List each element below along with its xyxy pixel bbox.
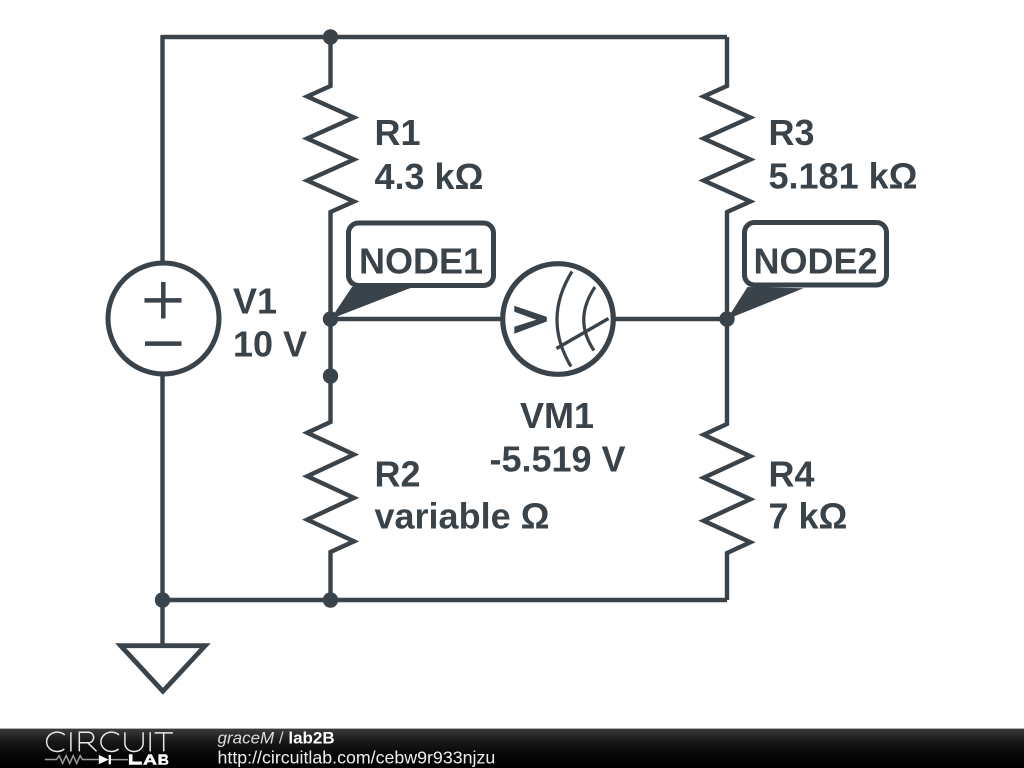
footer bar	[0, 729, 1024, 768]
label R2	[375, 454, 550, 537]
CircuitLab logo squiggle	[45, 755, 128, 764]
ground	[121, 646, 206, 692]
resistor R3	[704, 37, 751, 319]
svg-text:NODE1: NODE1	[359, 241, 483, 282]
junction dot bottom R2	[323, 592, 338, 607]
resistor R1	[307, 37, 354, 319]
label R1	[375, 112, 484, 197]
svg-text:R1: R1	[375, 112, 421, 153]
label VM1	[489, 395, 625, 479]
wire top horizontal	[163, 35, 728, 39]
CircuitLab logo LAB	[129, 754, 169, 765]
svg-text:-5.519 V: -5.519 V	[489, 438, 625, 479]
CircuitLab logo CIRCUIT	[47, 732, 173, 751]
label R4	[769, 454, 848, 537]
wire VM1 right	[611, 317, 727, 321]
wire ground lead	[160, 600, 164, 645]
svg-text:NODE2: NODE2	[753, 240, 877, 281]
wire bottom horizontal	[163, 598, 728, 602]
svg-text:V1: V1	[233, 281, 277, 322]
svg-text:5.181 kΩ: 5.181 kΩ	[769, 156, 918, 197]
svg-text:R2: R2	[375, 454, 421, 495]
wire left vertical (V1 top lead)	[160, 35, 164, 264]
svg-text:4.3 kΩ: 4.3 kΩ	[375, 156, 484, 197]
node NODE2 callout	[727, 223, 887, 320]
label V1	[233, 281, 307, 365]
svg-text:R4: R4	[769, 454, 815, 495]
label R3	[769, 112, 918, 197]
voltmeter VM1	[503, 264, 614, 375]
junction dot top	[323, 29, 338, 44]
svg-text:7 kΩ: 7 kΩ	[769, 496, 848, 537]
junction dot bottom left	[155, 592, 170, 607]
voltage source V1	[108, 263, 219, 374]
svg-text:http://circuitlab.com/cebw9r93: http://circuitlab.com/cebw9r933njzu	[218, 748, 496, 768]
svg-text:variable Ω: variable Ω	[375, 496, 550, 537]
resistor R2	[307, 319, 354, 600]
svg-text:graceM / lab2B: graceM / lab2B	[218, 729, 335, 748]
resistor R4	[704, 319, 751, 600]
svg-text:10 V: 10 V	[233, 324, 307, 365]
wire VM1 left	[331, 317, 506, 321]
junction dot below NODE1	[323, 368, 338, 383]
svg-text:R3: R3	[769, 112, 815, 153]
junction dot NODE1	[323, 311, 338, 326]
node NODE1 callout	[331, 223, 494, 319]
svg-text:VM1: VM1	[520, 395, 594, 436]
wire left vertical (V1 bottom lead)	[160, 374, 164, 601]
junction dot NODE2	[719, 311, 734, 326]
